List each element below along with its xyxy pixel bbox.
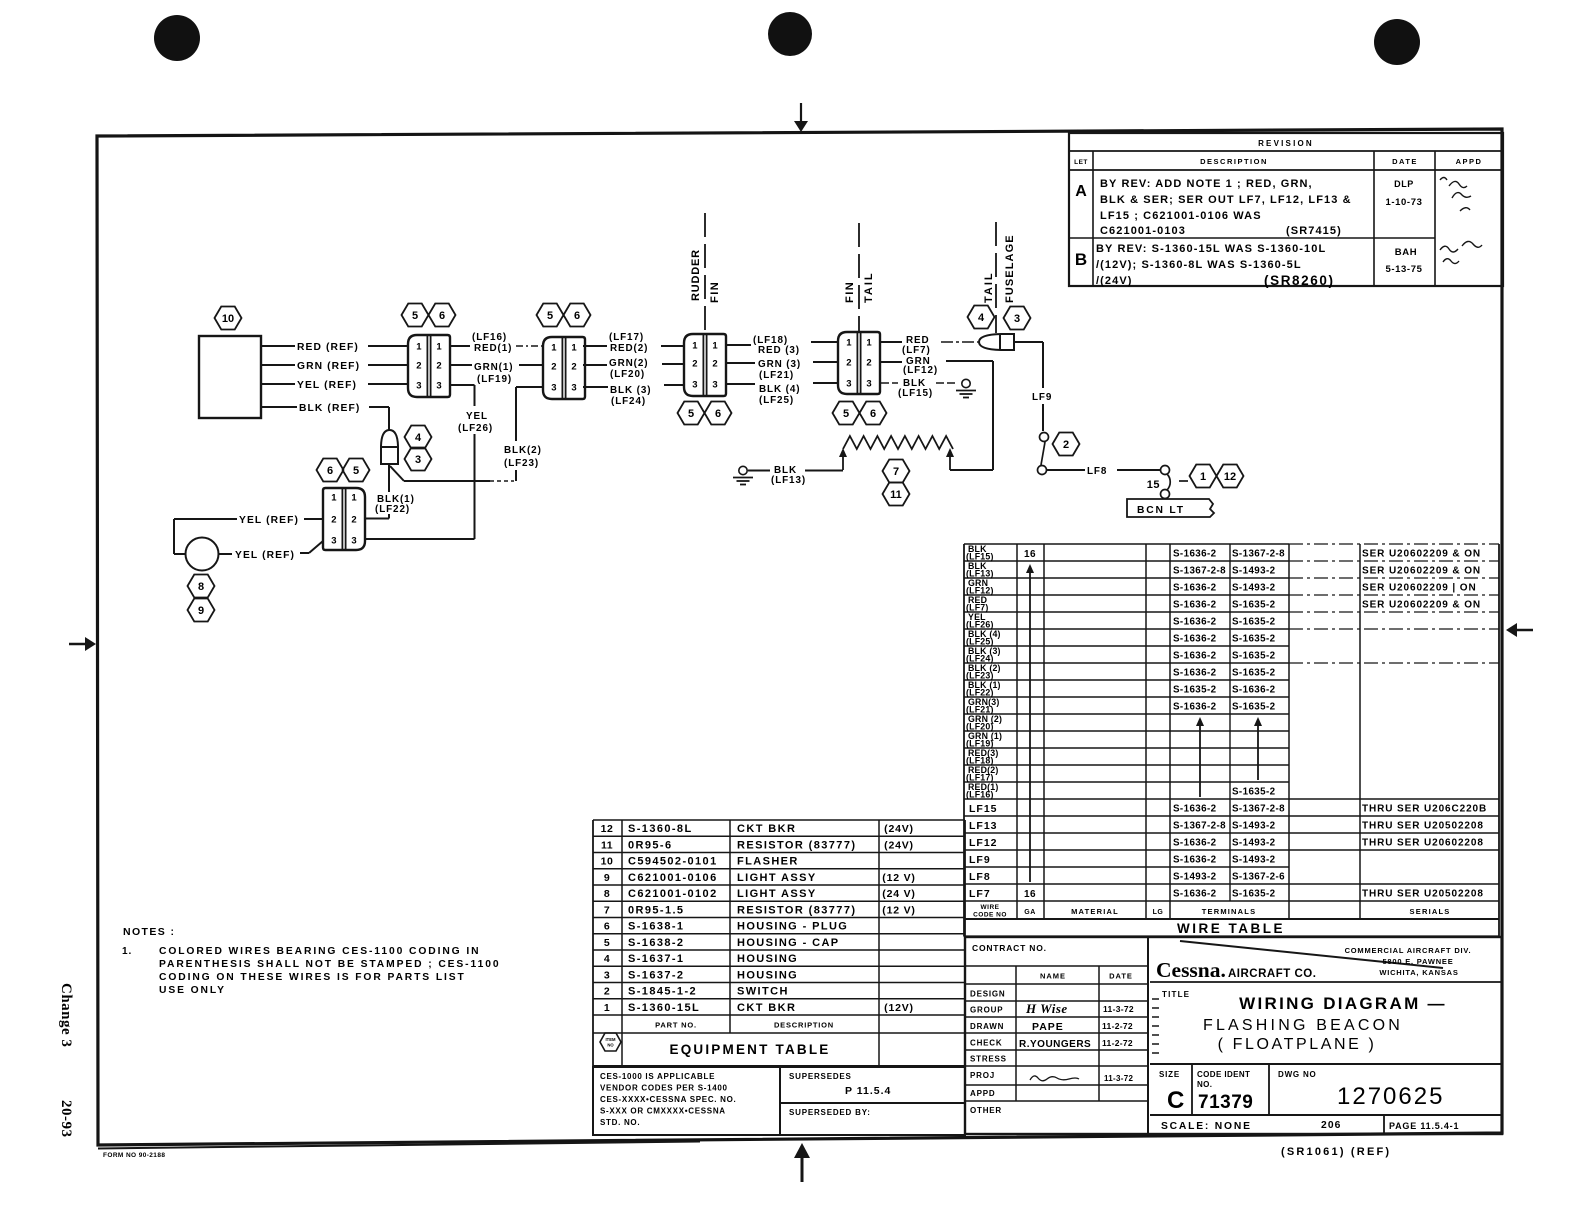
svg-text:BY REV: ADD NOTE 1 ;: BY REV: ADD NOTE 1 ; RED, GRN, <box>1100 178 1313 190</box>
svg-text:2: 2 <box>846 358 851 369</box>
svg-text:3: 3 <box>712 380 717 391</box>
wire RED LF7 <box>881 335 979 356</box>
svg-text:LF9: LF9 <box>969 854 991 866</box>
wire GRN LF12 <box>881 356 993 470</box>
balloon 6 C3 <box>705 402 732 425</box>
svg-text:5: 5 <box>688 408 694 420</box>
svg-text:12: 12 <box>1224 471 1236 483</box>
svg-text:LG: LG <box>1153 909 1164 916</box>
svg-text:S-XXX OR CMXXXX•CESSNA: S-XXX OR CMXXXX•CESSNA <box>600 1107 726 1116</box>
bottom center registration arrow <box>794 1143 810 1182</box>
svg-text:(LF17): (LF17) <box>609 332 644 343</box>
svg-text:C621001-0102: C621001-0102 <box>628 888 718 900</box>
svg-text:H Wise: H Wise <box>1025 1001 1068 1016</box>
svg-text:(LF19): (LF19) <box>477 374 512 385</box>
svg-text:SCALE: NONE: SCALE: NONE <box>1161 1121 1252 1132</box>
balloon 5 C3 <box>678 402 705 425</box>
svg-text:6: 6 <box>715 408 721 420</box>
bulkhead line FIN/TAIL <box>844 223 875 332</box>
resistor R1 (items 7,11) <box>843 436 953 449</box>
resistor tap arrow right <box>946 448 954 470</box>
svg-text:WIRING DIAGRAM —: WIRING DIAGRAM — <box>1239 994 1447 1013</box>
svg-text:SUPERSEDES: SUPERSEDES <box>789 1072 852 1081</box>
svg-text:S-1493-2: S-1493-2 <box>1232 837 1276 848</box>
svg-text:THRU SER U20502208: THRU SER U20502208 <box>1362 888 1484 899</box>
svg-text:NAME: NAME <box>1040 972 1066 981</box>
wire BLK(1) LF22 <box>364 464 415 519</box>
svg-text:BLK(2): BLK(2) <box>504 445 542 456</box>
svg-text:HOUSING: HOUSING <box>737 969 798 981</box>
svg-text:C621001-0103: C621001-0103 <box>1100 225 1186 237</box>
wire YEL (REF) lower <box>219 541 324 561</box>
svg-text:(24V): (24V) <box>884 823 914 835</box>
svg-text:LF15: LF15 <box>969 803 998 815</box>
svg-text:NOTES :: NOTES : <box>123 926 175 938</box>
svg-text:16: 16 <box>1024 549 1036 560</box>
wire YEL (REF) flasher <box>261 380 408 391</box>
svg-text:CHECK: CHECK <box>970 1039 1002 1048</box>
svg-text:(12 V): (12 V) <box>882 904 915 916</box>
svg-text:206: 206 <box>1321 1120 1341 1131</box>
svg-text:Cessna.: Cessna. <box>1156 958 1226 982</box>
svg-text:BY REV: S-1360-15L WAS S-1360-: BY REV: S-1360-15L WAS S-1360-10L <box>1096 243 1326 255</box>
svg-text:TAIL: TAIL <box>863 271 875 303</box>
svg-text:S-1360-8L: S-1360-8L <box>628 823 693 835</box>
svg-text:B: B <box>1075 250 1087 269</box>
svg-text:4: 4 <box>604 953 610 965</box>
svg-text:LF12: LF12 <box>969 837 998 849</box>
svg-text:RED (3): RED (3) <box>758 345 800 356</box>
bulkhead line TAIL/FUSELAGE <box>983 222 1016 333</box>
svg-text:3: 3 <box>551 383 556 394</box>
svg-text:2: 2 <box>1063 439 1069 451</box>
svg-text:3: 3 <box>416 381 421 392</box>
balloon 4 lamp conn <box>968 306 995 329</box>
svg-text:P 11.5.4: P 11.5.4 <box>845 1085 891 1097</box>
svg-text:CODE IDENT: CODE IDENT <box>1197 1070 1250 1079</box>
binder hole left <box>154 15 200 61</box>
svg-text:3: 3 <box>1014 313 1020 325</box>
wire RED(3) LF18 <box>725 335 838 356</box>
svg-text:1: 1 <box>416 342 422 353</box>
svg-text:CES-1000 IS APPLICABLE: CES-1000 IS APPLICABLE <box>600 1072 715 1081</box>
balloon 10 <box>215 307 242 330</box>
svg-text:USE ONLY: USE ONLY <box>159 985 226 996</box>
svg-text:LIGHT ASSY: LIGHT ASSY <box>737 888 817 900</box>
balloon 7 resistor <box>883 460 910 483</box>
svg-text:CODE NO: CODE NO <box>973 912 1007 919</box>
svg-text:9: 9 <box>604 872 610 884</box>
svg-text:10: 10 <box>222 313 234 325</box>
flasher U10 (item 10) <box>199 336 261 418</box>
svg-text:FIN: FIN <box>709 281 721 303</box>
svg-text:WIRE TABLE: WIRE TABLE <box>1177 921 1285 936</box>
svg-text:(LF22): (LF22) <box>375 504 410 515</box>
svg-text:S-1367-2-6: S-1367-2-6 <box>1232 871 1285 882</box>
wire YEL (REF) upper <box>174 515 323 554</box>
wire GRN(1) LF19 <box>450 362 543 385</box>
svg-text:S-1635-2: S-1635-2 <box>1232 633 1276 644</box>
svg-text:TERMINALS: TERMINALS <box>1202 907 1257 916</box>
svg-text:DESIGN: DESIGN <box>970 990 1005 999</box>
wire BLK (REF) <box>261 403 389 430</box>
svg-text:S-1636-2: S-1636-2 <box>1173 616 1217 627</box>
svg-text:THRU SER U206C220B: THRU SER U206C220B <box>1362 803 1487 814</box>
svg-text:S-1493-2: S-1493-2 <box>1173 871 1217 882</box>
balloon 2 switch <box>1053 433 1080 456</box>
svg-text:S-1635-2: S-1635-2 <box>1232 786 1276 797</box>
svg-text:WICHITA, KANSAS: WICHITA, KANSAS <box>1379 968 1458 977</box>
svg-text:S-1636-2: S-1636-2 <box>1173 548 1217 559</box>
svg-text:RESISTOR (83777): RESISTOR (83777) <box>737 839 856 851</box>
svg-text:11-2-72: 11-2-72 <box>1102 1038 1133 1048</box>
svg-text:2: 2 <box>416 361 421 372</box>
svg-text:S-1367-2-8: S-1367-2-8 <box>1232 548 1285 559</box>
left edge registration arrow <box>69 637 96 651</box>
svg-text:Change 3: Change 3 <box>58 983 74 1047</box>
balloon 9 beacon <box>188 599 215 622</box>
wire GRN (REF) <box>261 361 408 372</box>
right edge registration arrow <box>1506 623 1533 637</box>
wire RED(1) LF16 <box>450 332 543 354</box>
svg-text:SWITCH: SWITCH <box>737 986 789 998</box>
svg-text:DESCRIPTION: DESCRIPTION <box>774 1021 834 1030</box>
balloon 5 C1 <box>402 304 429 327</box>
svg-text:PARENTHESIS SHALL NOT BE S: PARENTHESIS SHALL NOT BE STAMPED ; CES-1… <box>159 959 500 970</box>
svg-text:1.: 1. <box>122 946 132 957</box>
svg-text:EQUIPMENT TABLE: EQUIPMENT TABLE <box>670 1042 831 1057</box>
svg-text:GRN(1): GRN(1) <box>474 362 513 373</box>
svg-text:5: 5 <box>547 310 553 322</box>
connector P4/J4 (items 5,6) <box>838 332 880 394</box>
svg-text:S-1638-1: S-1638-1 <box>628 921 684 933</box>
svg-text:YEL: YEL <box>466 411 488 422</box>
svg-text:S-1493-2: S-1493-2 <box>1232 582 1276 593</box>
svg-text:DLP: DLP <box>1394 179 1414 189</box>
revision table <box>1069 133 1503 288</box>
svg-text:HOUSING - CAP: HOUSING - CAP <box>737 937 840 949</box>
svg-text:APPD: APPD <box>1456 157 1483 166</box>
svg-text:S-1635-2: S-1635-2 <box>1232 616 1276 627</box>
svg-text:BCN LT: BCN LT <box>1137 505 1185 516</box>
svg-text:5: 5 <box>412 310 418 322</box>
svg-text:(LF12): (LF12) <box>903 365 938 376</box>
wire RED (REF) <box>261 342 408 353</box>
svg-text:YEL (REF): YEL (REF) <box>235 550 295 561</box>
svg-text:FIN: FIN <box>844 281 856 303</box>
svg-text:(24 V): (24 V) <box>882 888 915 900</box>
svg-text:LF7: LF7 <box>969 888 991 900</box>
svg-text:OTHER: OTHER <box>970 1106 1002 1115</box>
svg-text:S-1636-2: S-1636-2 <box>1173 837 1217 848</box>
svg-text:S-1367-2-8: S-1367-2-8 <box>1232 803 1285 814</box>
svg-text:PROJ: PROJ <box>970 1071 995 1080</box>
svg-text:8: 8 <box>198 581 204 593</box>
svg-text:S-1493-2: S-1493-2 <box>1232 820 1276 831</box>
svg-text:GA: GA <box>1024 909 1036 916</box>
svg-text:RESISTOR (83777): RESISTOR (83777) <box>737 904 856 916</box>
svg-text:BLK & SER; SER OUT LF7, LF12,: BLK & SER; SER OUT LF7, LF12, LF13 & <box>1100 194 1352 206</box>
svg-text:(12 V): (12 V) <box>882 872 915 884</box>
svg-text:2: 2 <box>604 986 610 998</box>
svg-text:S-1636-2: S-1636-2 <box>1173 667 1217 678</box>
svg-text:DATE: DATE <box>1109 972 1133 981</box>
svg-text:DATE: DATE <box>1392 157 1418 166</box>
svg-text:REVISION: REVISION <box>1258 139 1314 148</box>
svg-text:/(12V); S-1360-8L WAS S-1360-5: /(12V); S-1360-8L WAS S-1360-5L <box>1096 259 1302 271</box>
svg-text:S-1493-2: S-1493-2 <box>1232 565 1276 576</box>
svg-text:TITLE: TITLE <box>1162 990 1190 999</box>
svg-text:FLASHING BEACON: FLASHING BEACON <box>1203 1017 1403 1034</box>
svg-text:6: 6 <box>327 465 333 477</box>
balloon 6 C2 <box>564 304 591 327</box>
svg-text:CODING ON THESE WIRES IS F: CODING ON THESE WIRES IS FOR PARTS LIST <box>159 972 466 983</box>
wire BLK LF15 <box>881 378 957 399</box>
svg-text:5-13-75: 5-13-75 <box>1386 264 1423 275</box>
svg-text:11-3-72: 11-3-72 <box>1103 1004 1134 1014</box>
svg-text:DWG NO: DWG NO <box>1278 1070 1317 1079</box>
svg-text:S-1367-2-8: S-1367-2-8 <box>1173 820 1226 831</box>
svg-text:HOUSING - PLUG: HOUSING - PLUG <box>737 921 848 933</box>
wire table <box>964 544 1499 937</box>
wire BLK(3) LF24 <box>583 385 684 407</box>
svg-text:DRAWN: DRAWN <box>970 1022 1004 1031</box>
svg-text:3: 3 <box>436 381 441 392</box>
svg-text:4: 4 <box>415 432 422 444</box>
svg-text:S-1360-15L: S-1360-15L <box>628 1002 700 1014</box>
binder hole right <box>1374 19 1420 65</box>
svg-text:FUSELAGE: FUSELAGE <box>1004 234 1016 303</box>
svg-text:1: 1 <box>331 493 337 504</box>
svg-text:VENDOR CODES PER S-1400: VENDOR CODES PER S-1400 <box>600 1084 728 1093</box>
left margin change text <box>58 983 74 1138</box>
svg-text:1: 1 <box>604 1002 610 1014</box>
svg-text:APPD: APPD <box>970 1089 995 1098</box>
svg-text:S-1636-2: S-1636-2 <box>1173 854 1217 865</box>
svg-text:3: 3 <box>692 380 697 391</box>
svg-text:S-1638-2: S-1638-2 <box>628 937 684 949</box>
wire YEL LF26 <box>364 385 493 539</box>
balloon 1 breaker <box>1190 465 1217 488</box>
connector P5/J5 (items 6,5) <box>323 488 365 550</box>
svg-text:HOUSING: HOUSING <box>737 953 798 965</box>
svg-text:71379: 71379 <box>1198 1092 1253 1113</box>
inline connector blk (items 4,3) <box>381 430 398 464</box>
svg-text:(SR1061) (REF): (SR1061) (REF) <box>1281 1146 1391 1158</box>
top center registration arrow <box>794 103 808 132</box>
svg-text:5: 5 <box>604 937 610 949</box>
svg-text:3: 3 <box>351 536 356 547</box>
svg-text:S-1635-2: S-1635-2 <box>1232 599 1276 610</box>
switch S1 (item 2) <box>1038 433 1049 475</box>
svg-text:GRN (3): GRN (3) <box>758 359 801 370</box>
balloon 12 breaker <box>1217 465 1244 488</box>
svg-text:( FLOATPLANE ): ( FLOATPLANE ) <box>1218 1036 1377 1053</box>
svg-text:2: 2 <box>866 358 871 369</box>
svg-text:THRU SER U20602208: THRU SER U20602208 <box>1362 837 1484 848</box>
svg-text:STD. NO.: STD. NO. <box>600 1118 640 1127</box>
svg-text:A: A <box>1075 183 1087 200</box>
svg-text:2: 2 <box>351 515 356 526</box>
svg-text:5: 5 <box>353 465 359 477</box>
svg-text:PAPE: PAPE <box>1032 1021 1064 1033</box>
svg-text:1: 1 <box>692 341 698 352</box>
ces note / supersedes boxes <box>593 1067 965 1135</box>
svg-text:RED(1): RED(1) <box>474 343 512 354</box>
svg-text:3: 3 <box>604 969 610 981</box>
svg-text:ITEM: ITEM <box>605 1037 616 1042</box>
svg-text:(LF7): (LF7) <box>902 345 931 356</box>
svg-text:(LF15): (LF15) <box>898 388 933 399</box>
svg-text:S-1636-2: S-1636-2 <box>1173 701 1217 712</box>
beacon light B1 <box>186 538 219 571</box>
svg-text:11: 11 <box>601 839 613 851</box>
svg-text:S-1635-2: S-1635-2 <box>1173 684 1217 695</box>
svg-text:2: 2 <box>692 359 697 370</box>
svg-text:RED(2): RED(2) <box>610 343 648 354</box>
svg-text:1: 1 <box>551 343 557 354</box>
balloon 6 C4 <box>860 402 887 425</box>
svg-text:SER U20602209 & ON: SER U20602209 & ON <box>1362 565 1481 576</box>
svg-text:R.YOUNGERS: R.YOUNGERS <box>1019 1039 1091 1050</box>
svg-text:LIGHT ASSY: LIGHT ASSY <box>737 872 817 884</box>
svg-text:GRN(2): GRN(2) <box>609 358 648 369</box>
svg-text:BLK (3): BLK (3) <box>610 385 651 396</box>
svg-text:BAH: BAH <box>1395 247 1417 258</box>
svg-text:LF9: LF9 <box>1032 392 1052 403</box>
svg-text:S-1493-2: S-1493-2 <box>1232 854 1276 865</box>
svg-text:CKT BKR: CKT BKR <box>737 1002 796 1014</box>
wire GRN(3) LF21 <box>725 359 838 381</box>
svg-text:(12V): (12V) <box>884 1002 914 1014</box>
wire BLK LF13 <box>748 465 843 486</box>
svg-text:BLK (REF): BLK (REF) <box>299 403 360 414</box>
notes block <box>122 926 500 996</box>
svg-text:COLORED WIRES BEARING CES-1: COLORED WIRES BEARING CES-1100 CODING IN <box>159 946 480 957</box>
svg-text:BLK (4): BLK (4) <box>759 384 800 395</box>
svg-text:C594502-0101: C594502-0101 <box>628 856 718 868</box>
svg-text:1270625: 1270625 <box>1337 1083 1444 1110</box>
svg-text:SER U20602209 & ON: SER U20602209 & ON <box>1362 599 1481 610</box>
svg-text:(LF25): (LF25) <box>759 395 794 406</box>
svg-text:6: 6 <box>604 921 610 933</box>
svg-text:CES-XXXX•CESSNA SPEC. NO.: CES-XXXX•CESSNA SPEC. NO. <box>600 1095 736 1104</box>
svg-text:S-1635-2: S-1635-2 <box>1232 667 1276 678</box>
svg-text:S-1635-2: S-1635-2 <box>1232 650 1276 661</box>
svg-text:3: 3 <box>571 383 576 394</box>
svg-text:0R95-1.5: 0R95-1.5 <box>628 904 684 916</box>
svg-text:FORM NO 90-2188: FORM NO 90-2188 <box>103 1152 165 1159</box>
svg-text:(SR7415): (SR7415) <box>1286 225 1342 237</box>
svg-text:(24V): (24V) <box>884 839 914 851</box>
svg-text:TAIL: TAIL <box>983 271 995 303</box>
svg-text:5: 5 <box>843 408 849 420</box>
svg-text:6: 6 <box>439 310 445 322</box>
svg-text:CKT BKR: CKT BKR <box>737 823 796 835</box>
svg-text:5800 E. PAWNEE: 5800 E. PAWNEE <box>1382 957 1453 966</box>
ground right of C4 <box>956 379 976 397</box>
svg-text:LF15 ; C621001-0106 WAS: LF15 ; C621001-0106 WAS <box>1100 210 1262 222</box>
svg-text:MATERIAL: MATERIAL <box>1071 907 1119 916</box>
svg-text:11-2-72: 11-2-72 <box>1102 1021 1133 1031</box>
balloon 5 C2 <box>537 304 564 327</box>
svg-text:SUPERSEDED BY:: SUPERSEDED BY: <box>789 1108 871 1117</box>
svg-text:COMMERCIAL AIRCRAFT DIV.: COMMERCIAL AIRCRAFT DIV. <box>1345 946 1472 955</box>
svg-text:S-1636-2: S-1636-2 <box>1173 650 1217 661</box>
svg-text:STRESS: STRESS <box>970 1055 1007 1064</box>
connector P2/J2 (items 5,6) <box>543 337 585 399</box>
svg-text:S-1636-2: S-1636-2 <box>1173 582 1217 593</box>
connector P3/J3 (items 5,6) <box>684 334 726 396</box>
svg-text:(LF24): (LF24) <box>611 396 646 407</box>
wire RED(2) LF17 <box>583 332 684 354</box>
svg-text:1: 1 <box>712 341 718 352</box>
inline connector tail/fuselage (items 4,3) <box>979 334 1014 350</box>
svg-text:1: 1 <box>866 338 872 349</box>
svg-text:(SR8260): (SR8260) <box>1264 273 1335 288</box>
page border frame <box>97 129 1502 1149</box>
svg-text:YEL (REF): YEL (REF) <box>239 515 299 526</box>
svg-text:3: 3 <box>415 454 421 466</box>
balloon 4 bullet <box>405 426 432 449</box>
svg-text:(LF13): (LF13) <box>771 475 806 486</box>
svg-text:1: 1 <box>436 342 442 353</box>
svg-text:11-3-72: 11-3-72 <box>1104 1074 1133 1083</box>
connector P1/J1 (items 5,6) <box>408 335 450 397</box>
svg-text:S-1636-2: S-1636-2 <box>1173 633 1217 644</box>
svg-text:C621001-0106: C621001-0106 <box>628 872 718 884</box>
balloon 5 C5 <box>343 459 370 482</box>
balloon 3 bullet <box>405 448 432 471</box>
svg-text:3: 3 <box>866 379 871 390</box>
svg-text:SER U20602209 | ON: SER U20602209 | ON <box>1362 582 1477 593</box>
svg-text:NO.: NO. <box>1197 1080 1212 1089</box>
svg-text:(LF16): (LF16) <box>472 332 507 343</box>
svg-text:2: 2 <box>571 362 576 373</box>
svg-text:PART NO.: PART NO. <box>655 1021 697 1030</box>
wire LF8 <box>1047 466 1160 477</box>
svg-text:S-1367-2-8: S-1367-2-8 <box>1173 565 1226 576</box>
svg-text:9: 9 <box>198 605 204 617</box>
svg-text:1: 1 <box>846 338 852 349</box>
svg-text:2: 2 <box>712 359 717 370</box>
svg-text:SER U20602209 & ON: SER U20602209 & ON <box>1362 548 1481 559</box>
form number <box>103 1152 165 1159</box>
svg-text:S-1637-2: S-1637-2 <box>628 969 684 981</box>
svg-text:S-1635-2: S-1635-2 <box>1232 701 1276 712</box>
svg-text:/(24V): /(24V) <box>1096 275 1133 287</box>
svg-text:S-1636-2: S-1636-2 <box>1173 888 1217 899</box>
svg-text:7: 7 <box>893 466 899 478</box>
svg-text:2: 2 <box>331 515 336 526</box>
svg-text:16: 16 <box>1024 889 1036 900</box>
svg-text:LF8: LF8 <box>969 871 991 883</box>
svg-text:WIRE: WIRE <box>981 904 1000 911</box>
svg-text:3: 3 <box>331 536 336 547</box>
svg-text:0R95-6: 0R95-6 <box>628 839 672 851</box>
svg-text:(LF21): (LF21) <box>759 370 794 381</box>
svg-text:1-10-73: 1-10-73 <box>1386 197 1423 208</box>
svg-text:GROUP: GROUP <box>970 1006 1003 1015</box>
svg-text:YEL (REF): YEL (REF) <box>297 380 357 391</box>
svg-text:1: 1 <box>571 343 577 354</box>
svg-text:(LF26): (LF26) <box>458 423 493 434</box>
svg-text:8: 8 <box>604 888 610 900</box>
svg-text:S-1636-2: S-1636-2 <box>1173 599 1217 610</box>
svg-text:LET: LET <box>1074 159 1088 166</box>
binder hole center <box>768 12 812 56</box>
svg-text:12: 12 <box>601 823 614 835</box>
